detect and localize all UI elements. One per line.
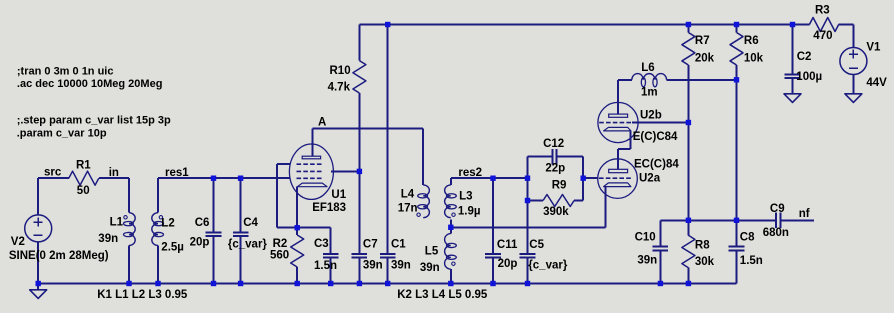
svg-text:C10: C10: [635, 231, 656, 243]
svg-text:1.5n: 1.5n: [740, 255, 763, 267]
svg-text:L3: L3: [459, 191, 472, 203]
svg-text:{c_var}: {c_var}: [228, 239, 268, 251]
svg-text:10k: 10k: [744, 52, 764, 64]
svg-text:39n: 39n: [363, 260, 383, 272]
svg-text:1.9µ: 1.9µ: [458, 205, 481, 217]
svg-text:;.step param c_var list 15p 3p: ;.step param c_var list 15p 3p: [17, 115, 171, 127]
svg-text:39n: 39n: [637, 255, 657, 267]
svg-text:C4: C4: [243, 217, 258, 229]
svg-text:R10: R10: [330, 65, 351, 77]
svg-text:R6: R6: [744, 35, 759, 47]
svg-text:R8: R8: [695, 239, 710, 251]
svg-text:C5: C5: [529, 239, 544, 251]
svg-text:2.5µ: 2.5µ: [161, 241, 184, 253]
svg-text:E(C)C84: E(C)C84: [633, 131, 678, 143]
svg-text:EC(C)84: EC(C)84: [634, 159, 679, 171]
svg-text:C12: C12: [543, 138, 564, 150]
svg-text:1m: 1m: [641, 87, 658, 99]
svg-text:src: src: [44, 167, 62, 179]
svg-text:C11: C11: [497, 239, 518, 251]
svg-text:L4: L4: [401, 189, 415, 201]
svg-text:C8: C8: [740, 231, 755, 243]
svg-text:V2: V2: [11, 236, 25, 248]
svg-text:R7: R7: [695, 35, 710, 47]
svg-text:17n: 17n: [398, 202, 418, 214]
svg-text:.param c_var 10p: .param c_var 10p: [17, 128, 107, 140]
svg-text:22p: 22p: [545, 163, 565, 175]
svg-text:560: 560: [270, 250, 289, 262]
svg-text:20p: 20p: [498, 258, 518, 270]
svg-text:in: in: [109, 167, 119, 179]
svg-text:R2: R2: [273, 238, 288, 250]
svg-text:K1 L1 L2 L3 0.95: K1 L1 L2 L3 0.95: [97, 289, 188, 301]
svg-text:.ac dec 10000 10Meg 20Meg: .ac dec 10000 10Meg 20Meg: [17, 78, 163, 90]
svg-text:R3: R3: [815, 5, 830, 17]
svg-text:A: A: [318, 116, 326, 128]
svg-text:20k: 20k: [695, 52, 715, 64]
svg-text:39n: 39n: [391, 260, 411, 272]
svg-text:C3: C3: [314, 238, 329, 250]
svg-text:470: 470: [813, 30, 832, 42]
svg-text:L5: L5: [425, 245, 439, 257]
svg-text:50: 50: [77, 185, 90, 197]
svg-text:SINE(0 2m 28Meg): SINE(0 2m 28Meg): [9, 250, 109, 262]
svg-text:100µ: 100µ: [796, 71, 822, 83]
svg-text:;tran 0 3m 0 1n uic: ;tran 0 3m 0 1n uic: [17, 65, 114, 77]
svg-text:nf: nf: [799, 208, 810, 220]
svg-text:C7: C7: [363, 238, 378, 250]
svg-text:U2b: U2b: [640, 110, 662, 122]
svg-text:K2 L3 L4 L5 0.95: K2 L3 L4 L5 0.95: [397, 289, 488, 301]
svg-text:C6: C6: [195, 217, 210, 229]
svg-text:C2: C2: [797, 51, 812, 63]
svg-text:{c_var}: {c_var}: [528, 259, 568, 271]
svg-text:C9: C9: [770, 203, 785, 215]
svg-text:680n: 680n: [763, 227, 789, 239]
svg-text:39n: 39n: [98, 233, 118, 245]
svg-text:L2: L2: [161, 218, 174, 230]
svg-text:30k: 30k: [695, 256, 715, 268]
svg-text:U1: U1: [331, 189, 346, 201]
svg-text:res1: res1: [165, 167, 189, 179]
svg-text:C1: C1: [391, 238, 406, 250]
svg-text:EF183: EF183: [312, 202, 346, 214]
svg-text:res2: res2: [458, 167, 482, 179]
svg-text:U2a: U2a: [639, 173, 661, 185]
svg-text:R9: R9: [552, 180, 567, 192]
svg-text:L6: L6: [641, 62, 654, 74]
svg-text:V1: V1: [866, 41, 881, 53]
svg-text:R1: R1: [76, 159, 91, 171]
svg-text:4.7k: 4.7k: [328, 82, 351, 94]
svg-text:1.5n: 1.5n: [314, 260, 337, 272]
svg-text:20p: 20p: [190, 236, 210, 248]
svg-text:L1: L1: [110, 217, 124, 229]
svg-text:390k: 390k: [543, 206, 569, 218]
svg-text:39n: 39n: [420, 262, 440, 274]
svg-text:44V: 44V: [866, 77, 887, 89]
